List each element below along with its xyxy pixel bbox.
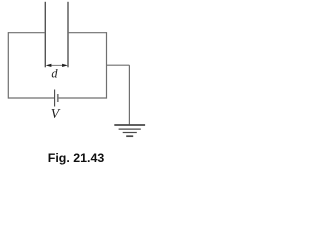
capacitor plate right <box>67 2 69 68</box>
battery V short plate <box>57 94 59 102</box>
wire ground drop vertical <box>128 65 130 125</box>
dimension arrow d (double-headed) <box>46 64 68 67</box>
wire top-left segment <box>8 32 45 34</box>
wire right side of box <box>106 32 108 99</box>
wire ground tap horizontal <box>107 64 130 66</box>
ground symbol <box>114 125 145 136</box>
svg-text:Fig. 21.43: Fig. 21.43 <box>48 151 105 165</box>
svg-text:V: V <box>51 106 61 121</box>
battery V long plate <box>54 90 56 107</box>
wire bottom-right segment <box>58 97 106 99</box>
wire left side of box <box>7 32 9 99</box>
wire bottom-left segment <box>8 97 54 99</box>
svg-text:d: d <box>51 67 58 81</box>
wire top-right segment <box>68 32 107 34</box>
capacitor plate left <box>44 2 46 68</box>
